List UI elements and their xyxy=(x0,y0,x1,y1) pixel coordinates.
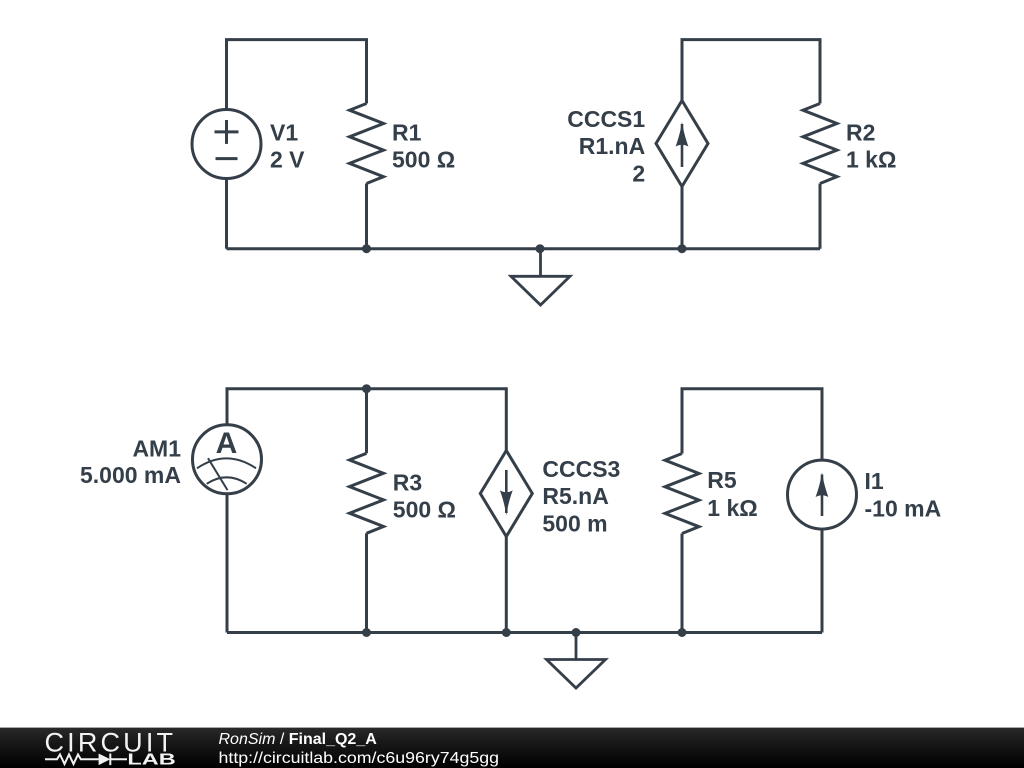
label AM1 value xyxy=(80,435,181,488)
svg-text:V1: V1 xyxy=(270,120,298,146)
wire: AM1 bottom lead xyxy=(226,494,229,633)
node: junction R3/top net xyxy=(362,384,371,393)
ground (top circuit) xyxy=(511,249,570,305)
wire: bottom net of bottom circuit xyxy=(227,631,822,634)
svg-text:A: A xyxy=(216,427,238,460)
node: junction R3/bottom net xyxy=(362,628,371,637)
current source I1 xyxy=(788,460,857,529)
wire: V1 bottom lead xyxy=(225,179,228,249)
svg-text:1 kΩ: 1 kΩ xyxy=(846,147,896,173)
footer title text xyxy=(219,731,500,767)
ammeter AM1 xyxy=(193,425,262,494)
resistor R1 xyxy=(350,104,384,184)
wire: R3 top lead xyxy=(365,389,368,454)
svg-text:500 Ω: 500 Ω xyxy=(393,497,456,523)
wire: top net of bottom-left circuit xyxy=(227,389,822,633)
svg-text:R2: R2 xyxy=(846,120,875,146)
label R5 value xyxy=(707,467,757,521)
svg-text:500 m: 500 m xyxy=(542,510,607,536)
svg-text:I1: I1 xyxy=(865,468,884,494)
wire: R2 bottom lead xyxy=(819,184,822,249)
svg-text:500 Ω: 500 Ω xyxy=(392,147,455,173)
svg-text:LAB: LAB xyxy=(127,751,175,768)
node: junction CCCS1/bottom net xyxy=(678,244,687,253)
svg-text:2 V: 2 V xyxy=(270,147,305,173)
label V1 value xyxy=(270,120,305,173)
node: junction ground/bottom net xyxy=(536,244,545,253)
svg-text:http://circuitlab.com/c6u96ry7: http://circuitlab.com/c6u96ry74g5gg xyxy=(219,750,500,767)
svg-text:R1.nA: R1.nA xyxy=(579,133,645,159)
wire: bottom net of top circuit xyxy=(227,247,821,250)
logo CIRCUIT LAB xyxy=(45,727,176,768)
resistor R2 xyxy=(803,104,837,184)
label R3 value xyxy=(393,470,456,523)
wire: top-left loop V1 to R1 xyxy=(227,40,367,109)
wire: I1 bottom lead xyxy=(821,529,824,632)
label I1 value xyxy=(865,468,942,522)
svg-text:2: 2 xyxy=(632,161,645,187)
svg-text:-10 mA: -10 mA xyxy=(865,496,942,522)
svg-text:CCCS1: CCCS1 xyxy=(567,106,645,132)
wire: CCCS1 bottom lead xyxy=(681,187,684,249)
ground (bottom circuit) xyxy=(547,633,606,689)
svg-text:5.000 mA: 5.000 mA xyxy=(80,462,181,488)
svg-text:AM1: AM1 xyxy=(132,435,181,461)
wire: R5 bottom lead xyxy=(681,534,684,633)
label CCCS3 value xyxy=(542,456,620,536)
node: junction R5/bottom net xyxy=(678,628,687,637)
CCCS3 xyxy=(480,451,532,537)
logo resistor-diode squiggle xyxy=(45,754,127,766)
resistor R3 xyxy=(350,453,384,533)
svg-text:1 kΩ: 1 kΩ xyxy=(707,495,757,521)
resistor R5 xyxy=(665,454,699,534)
svg-text:RonSim / Final_Q2_A: RonSim / Final_Q2_A xyxy=(219,731,378,748)
label CCCS1 value xyxy=(567,106,645,187)
wire: top-right loop CCCS1 to R2 xyxy=(682,40,820,104)
voltage source V1 xyxy=(192,110,261,179)
CCCS1 xyxy=(656,101,708,187)
wire: R1 bottom lead xyxy=(365,184,368,249)
label R2 value xyxy=(846,120,896,173)
svg-text:R1: R1 xyxy=(392,120,422,146)
wire: CCCS3 bottom lead xyxy=(505,537,508,633)
node: junction ground/bottom net xyxy=(572,628,581,637)
label R1 value xyxy=(392,120,455,173)
wire: top net of bottom-right loop xyxy=(682,389,822,460)
node: junction R1/bottom net xyxy=(362,244,371,253)
node: junction CCCS3/bottom net xyxy=(502,628,511,637)
footer bar xyxy=(0,728,1024,768)
svg-text:CCCS3: CCCS3 xyxy=(542,456,620,482)
wire: R3 bottom lead xyxy=(365,533,368,632)
svg-text:R5.nA: R5.nA xyxy=(542,483,608,509)
svg-text:R5: R5 xyxy=(707,467,737,493)
svg-text:R3: R3 xyxy=(393,470,422,496)
